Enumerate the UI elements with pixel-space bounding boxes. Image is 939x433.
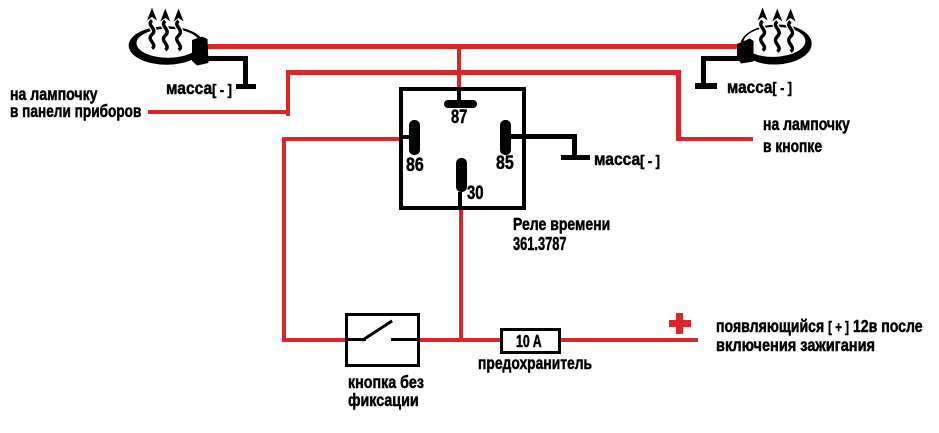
pin 86 blade: [409, 120, 420, 155]
ground wire of left heater: [206, 56, 248, 61]
label: включения зажигания: [716, 337, 875, 355]
fuse F1 box: [500, 328, 561, 354]
label: pin 86: [406, 156, 424, 175]
pin 85 blade: [500, 120, 511, 155]
wire: top feed from left heater to right heater: [206, 44, 742, 49]
ground symbol left heater: [236, 84, 256, 89]
switch lever: [361, 320, 393, 342]
push button S1 box: [345, 313, 420, 367]
wire: to lamp in button: [676, 137, 754, 142]
label: масса левая: [166, 80, 232, 98]
wire: to relay pin 86: [282, 137, 399, 142]
label: pin 87: [451, 108, 467, 127]
label: в панели приборов: [10, 103, 141, 121]
pin 87 stem: [457, 91, 460, 100]
+12V plus symbol: [669, 320, 691, 327]
wire: drop to relay pin 87: [457, 46, 462, 87]
ground symbol right heater: [695, 83, 717, 89]
label: pin 30: [467, 184, 484, 203]
heater element right (mirror heating icon): [690, 0, 870, 100]
wire: fuse to +12V: [560, 338, 698, 343]
wire: into push button: [282, 338, 346, 343]
label: фиксации: [348, 392, 419, 410]
label: Реле времени: [513, 216, 610, 234]
label: pin 85: [496, 154, 514, 173]
switch contact left: [345, 338, 366, 341]
label: появляющийся: [716, 318, 923, 336]
label: 361.3787: [513, 235, 566, 254]
wire: button to fuse: [419, 338, 500, 343]
pin 30 blade: [456, 158, 467, 192]
ground wire from pin 85: [510, 134, 577, 139]
label: в кнопке: [763, 138, 822, 156]
wire: drop from lamp bus to panel-lamp wire: [286, 70, 291, 116]
label: кнопка без: [348, 374, 424, 392]
pin 86 lead: [403, 135, 409, 138]
ground symbol pin 85: [561, 155, 590, 160]
ground wire of right heater: [701, 56, 742, 61]
switch contact right: [391, 338, 420, 341]
wire: relay pin 30 drop: [459, 210, 464, 342]
wire: left drop to push button: [282, 137, 287, 343]
pin 30 stem: [458, 192, 461, 210]
wire: right drop of lamp bus: [676, 70, 681, 141]
label: предохранитель: [478, 355, 592, 373]
relay U1 box: [399, 87, 526, 210]
label: 10 A: [516, 333, 542, 351]
heater element left (mirror heating icon): [0, 0, 260, 100]
label: на лампочку (button): [763, 116, 850, 134]
wire: to lamp in instrument panel: [148, 110, 290, 115]
label: масса реле: [594, 151, 660, 169]
wire: lamp bus horizontal: [286, 70, 681, 75]
label: масса правая: [727, 79, 792, 97]
pin 87 blade: [444, 100, 477, 108]
label: на лампочку (panel): [10, 86, 98, 104]
